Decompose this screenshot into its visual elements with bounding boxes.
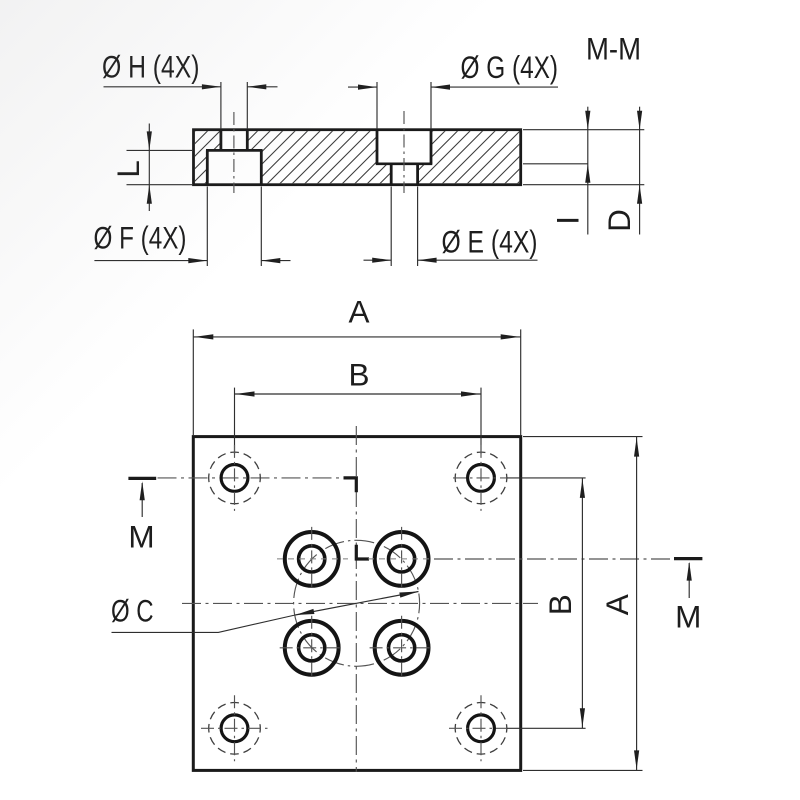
counterbored hole right cutout (white) (377, 130, 431, 164)
svg-text:B: B (348, 357, 369, 393)
dimension C arrow lower-left (295, 609, 314, 615)
background shading top-left (0, 0, 520, 520)
dimension D arrow bottom (637, 185, 642, 204)
dimension G arrow left (358, 85, 377, 90)
svg-text:Ø E (4X): Ø E (4X) (442, 224, 538, 260)
dimension C leader (112, 615, 296, 632)
dimension G leader line (431, 86, 558, 88)
port hole upper-right vertical centerline (401, 527, 403, 591)
hole H bore walls (left, top) (219, 130, 222, 151)
port hole upper-left vertical centerline (311, 527, 313, 591)
section line right segment (434, 558, 673, 560)
extension line counterbore G bottom right (523, 163, 588, 165)
section arrow right (688, 563, 690, 598)
port hole lower-right counterbore circle (375, 621, 429, 675)
mounting hole top-left vertical centerline (234, 445, 236, 511)
dimension H arrow right (247, 84, 266, 89)
dimension E extension lines (390, 187, 392, 267)
port hole lower-left bore circle (299, 635, 325, 661)
dimension E leader line (418, 259, 538, 261)
section hatching (141, 130, 571, 185)
counterbore G step (right) (376, 162, 433, 165)
port hole lower-left vertical centerline (311, 616, 313, 680)
mounting hole bottom-left vertical centerline (234, 695, 236, 761)
plate plan outline (193, 437, 520, 771)
dimension I arrow bottom (585, 164, 590, 183)
dimension L arrow top (147, 131, 152, 150)
dimension L extension lines (127, 149, 193, 151)
mounting hole top-left dashed circle (209, 452, 261, 504)
svg-text:Ø F (4X): Ø F (4X) (94, 220, 187, 256)
counterbored hole left cutout (white) (221, 130, 247, 151)
dimension C diameter line (295, 592, 418, 616)
svg-text:Ø H (4X): Ø H (4X) (102, 49, 200, 85)
dimension F leader line (94, 260, 207, 262)
mounting hole bottom-right vertical centerline (480, 695, 482, 761)
extension line plate top right (523, 129, 644, 131)
dimension H tail right (247, 86, 277, 88)
centerline left hole (section) (233, 112, 235, 193)
dimension A right arrow top (634, 438, 639, 457)
dimension L arrow bottom (147, 185, 152, 204)
dimension E tail left (364, 259, 392, 261)
dimension E arrow right (418, 258, 437, 263)
svg-text:M-M: M-M (586, 31, 641, 67)
section line left segment (158, 477, 344, 479)
dimension I line (587, 107, 589, 235)
dimension F arrow right (261, 258, 280, 263)
counterbore G walls (right, top) (376, 130, 379, 164)
counterbore F walls (left, bottom) (206, 150, 209, 184)
port hole upper-right bore circle (389, 546, 415, 572)
dimension B top extension lines (234, 388, 236, 454)
svg-text:I: I (550, 216, 586, 225)
port hole upper-left counterbore circle (285, 532, 339, 586)
dimension H arrow left (202, 84, 221, 89)
section end bar right (thick) (674, 557, 702, 560)
svg-text:A: A (599, 594, 635, 615)
dimension G tail left (348, 86, 377, 88)
mounting hole top-right bore (468, 465, 495, 492)
dimension E arrow left (372, 258, 391, 263)
port hole lower-left counterbore circle (285, 621, 339, 675)
fine centerline across upper port holes (277, 558, 348, 560)
mounting hole top-right horizontal centerline (453, 477, 507, 479)
dimension B top arrow left (236, 391, 255, 396)
dimension C arrow upper-right (399, 592, 418, 598)
extension line plate bottom right (523, 184, 644, 186)
section line bend 2 (thick) (356, 545, 369, 559)
dimension A right arrow bottom (634, 750, 639, 769)
centerline right hole (section) (403, 111, 405, 193)
plate section body fill (194, 130, 521, 185)
dimension F extension lines (206, 187, 208, 267)
section line bend 1 (thick) (344, 478, 357, 492)
dimension A right extension lines (523, 436, 643, 438)
dimension I arrow top (585, 111, 590, 130)
bolt circle C (294, 540, 420, 666)
mounting hole top-left bore (221, 465, 248, 492)
dimension F arrow left (188, 258, 207, 263)
dimension H leader line (104, 86, 221, 88)
svg-text:M: M (675, 599, 701, 635)
mounting hole bottom-left dashed circle (209, 703, 261, 755)
hole E bore walls (right, bottom) (390, 164, 393, 185)
dimension A top arrow right (501, 334, 520, 339)
svg-text:D: D (601, 209, 637, 232)
mounting hole bottom-left horizontal centerline (201, 727, 268, 729)
svg-text:Ø C: Ø C (111, 592, 154, 628)
mounting hole top-right dashed circle (455, 452, 507, 504)
mounting hole bottom-right horizontal centerline (449, 727, 507, 729)
horizontal mid centerline plan (182, 602, 538, 604)
dimension B right line (581, 478, 583, 728)
dimension A right line (636, 437, 638, 771)
svg-text:Ø G (4X): Ø G (4X) (461, 49, 559, 85)
port hole lower-right horizontal centerline (370, 647, 434, 649)
port hole upper-left bore circle (299, 546, 325, 572)
dimension F tail right (261, 260, 290, 262)
port hole upper-right counterbore circle (375, 532, 429, 586)
port hole lower-right vertical centerline (401, 616, 403, 680)
dimension B top line (235, 393, 482, 395)
mounting hole bottom-right dashed circle (455, 703, 507, 755)
dimension D line (639, 107, 641, 235)
svg-text:M: M (128, 519, 154, 555)
svg-text:A: A (348, 294, 369, 330)
dimension B right arrow top (580, 479, 585, 498)
svg-text:L: L (110, 160, 146, 178)
svg-text:B: B (542, 594, 578, 615)
dimension B right arrow bottom (580, 708, 585, 727)
vertical centerline plan (355, 426, 357, 772)
section arrow left (141, 483, 143, 517)
dimension B right extension lines (507, 477, 586, 479)
plate section outline (194, 130, 521, 185)
dimension A top line (193, 336, 520, 338)
counterbore F step (left) (206, 149, 263, 152)
section end bar left (thick) (128, 477, 156, 480)
dimension G extension lines (376, 82, 378, 128)
mounting hole top-right vertical centerline (480, 445, 482, 511)
port hole lower-left horizontal centerline (280, 647, 344, 649)
mounting hole bottom-right bore (468, 715, 495, 742)
dimension A top extension lines (192, 329, 194, 436)
dimension B top arrow right (461, 391, 480, 396)
dimension G arrow right (431, 85, 450, 90)
dimension H extension lines (220, 82, 222, 128)
dimension A top arrow left (194, 334, 213, 339)
mounting hole bottom-left bore (221, 715, 248, 742)
dimension D arrow top (637, 111, 642, 130)
port hole lower-right bore circle (389, 635, 415, 661)
dimension L line (148, 124, 150, 212)
